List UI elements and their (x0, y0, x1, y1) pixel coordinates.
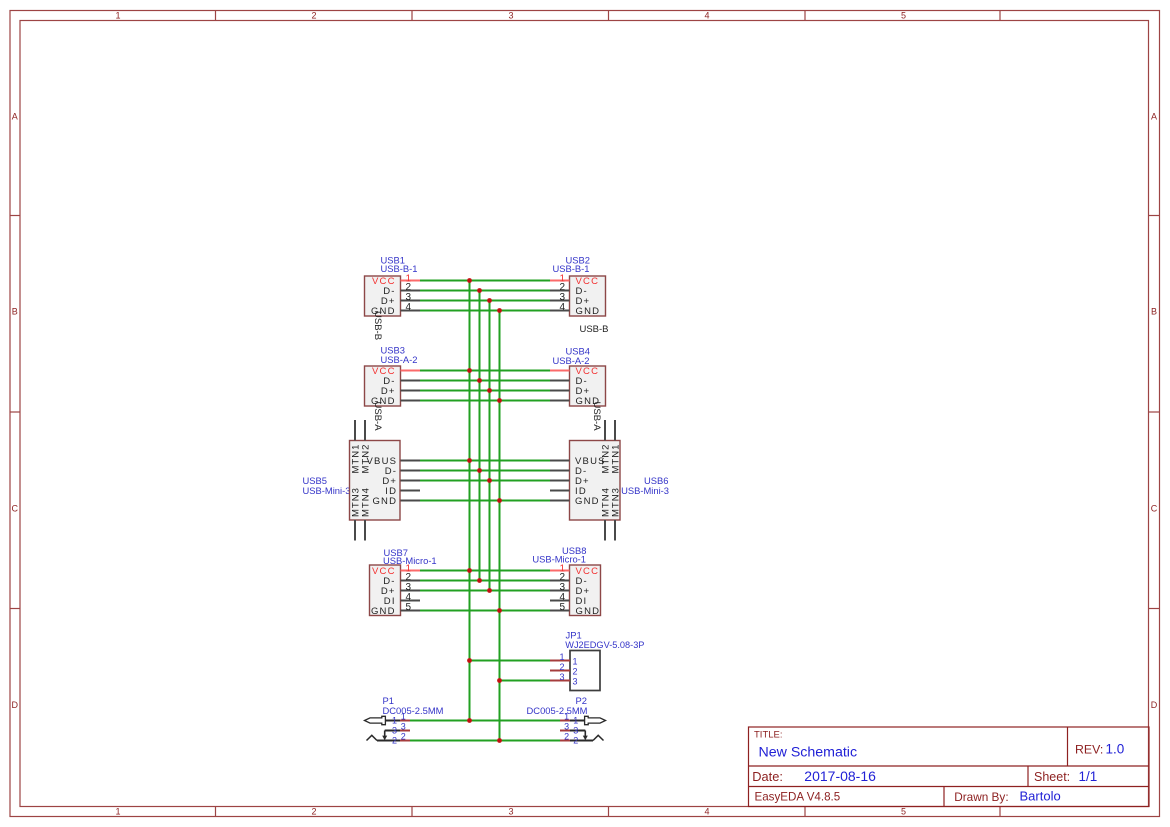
wire VCC USB5-USB6 (420, 460, 550, 462)
svg-text:1: 1 (392, 716, 397, 726)
svg-text:1: 1 (573, 716, 578, 726)
wire D- USB7-USB8 (420, 580, 550, 582)
svg-text:C: C (12, 503, 19, 513)
junction (469.5,370.5) (467, 368, 472, 373)
svg-text:MTN1: MTN1 (610, 444, 621, 474)
svg-text:WJ2EDGV-5.08-3P: WJ2EDGV-5.08-3P (565, 640, 644, 650)
junction (499.5,400.5) (497, 398, 502, 403)
svg-text:2: 2 (564, 732, 569, 742)
connector USB6 USB-Mini-3 (550, 420, 669, 541)
svg-text:GND: GND (576, 606, 601, 617)
wire GND USB5-USB6 (420, 500, 550, 502)
wire D- USB5-USB6 (420, 470, 550, 472)
junction (469.5,660.5) (467, 658, 472, 663)
wire vertical net D+ (489, 301, 491, 591)
svg-text:USB-A-2: USB-A-2 (381, 354, 418, 365)
svg-text:1: 1 (564, 712, 569, 722)
svg-text:USB-A: USB-A (372, 402, 383, 432)
svg-text:B: B (1151, 307, 1157, 317)
svg-text:2: 2 (573, 666, 578, 676)
wire GND USB3-USB4 (420, 400, 550, 402)
svg-text:GND: GND (576, 306, 601, 317)
wire D+ USB7-USB8 (420, 590, 550, 592)
connector P1 DC005-2.5MM (365, 695, 444, 745)
svg-text:3: 3 (508, 10, 513, 20)
svg-text:TITLE:: TITLE: (754, 730, 783, 741)
junction (499.5,500.5) (497, 498, 502, 503)
svg-text:USB-A: USB-A (591, 402, 602, 432)
junction (499.5,610.5) (497, 608, 502, 613)
svg-text:USB-B-1: USB-B-1 (553, 263, 590, 274)
wire GND P1-P2 pin 2 (410, 740, 560, 742)
svg-text:REV:: REV: (1075, 742, 1103, 756)
svg-text:1.0: 1.0 (1106, 741, 1125, 756)
svg-text:2: 2 (311, 807, 316, 817)
svg-text:USB-A-2: USB-A-2 (553, 355, 590, 366)
svg-text:DC005-2.5MM: DC005-2.5MM (527, 705, 588, 716)
connector USB5 USB-Mini-3 (303, 420, 421, 541)
svg-text:New Schematic: New Schematic (759, 745, 858, 761)
svg-text:Sheet:: Sheet: (1034, 770, 1070, 784)
svg-text:4: 4 (704, 807, 709, 817)
svg-text:5: 5 (406, 602, 412, 613)
svg-text:3: 3 (401, 722, 406, 732)
junction (469.5,460.5) (467, 458, 472, 463)
svg-text:MTN4: MTN4 (360, 487, 371, 517)
svg-text:USB-B: USB-B (372, 311, 383, 340)
wire vertical net GND (499, 311, 501, 741)
junction (479.5,470.5) (477, 468, 482, 473)
svg-text:MTN3: MTN3 (610, 487, 621, 517)
svg-text:5: 5 (559, 602, 565, 613)
wire D+ USB5-USB6 (420, 480, 550, 482)
svg-text:1: 1 (401, 712, 406, 722)
wire VCC USB1-USB2 (420, 280, 550, 282)
svg-text:D: D (1151, 700, 1158, 710)
svg-text:Date:: Date: (752, 769, 783, 784)
svg-text:EasyEDA V4.8.5: EasyEDA V4.8.5 (755, 791, 841, 804)
svg-text:1: 1 (559, 652, 564, 662)
junction (499.5,310.5) (497, 308, 502, 313)
junction (469.5,570.5) (467, 568, 472, 573)
svg-text:2: 2 (401, 732, 406, 742)
junction (489.5,300.5) (487, 298, 492, 303)
svg-text:3: 3 (573, 676, 578, 686)
wire VCC to JP1 pin 1 (470, 660, 551, 662)
connector USB1 USB-B-1 (365, 254, 421, 340)
connector USB7 USB-Micro-1 (370, 547, 437, 617)
svg-text:Bartolo: Bartolo (1020, 789, 1061, 804)
svg-text:3: 3 (573, 726, 578, 736)
svg-text:1: 1 (115, 807, 120, 817)
wire VCC USB3-USB4 (420, 370, 550, 372)
junction (469.5,280.5) (467, 278, 472, 283)
svg-text:DC005-2.5MM: DC005-2.5MM (383, 705, 444, 716)
svg-text:GND: GND (371, 606, 396, 617)
svg-text:2017-08-16: 2017-08-16 (804, 768, 876, 784)
connector USB8 USB-Micro-1 (532, 545, 600, 617)
svg-text:1: 1 (115, 10, 120, 20)
svg-text:C: C (1151, 503, 1158, 513)
wire GND USB1-USB2 (420, 310, 550, 312)
wire GND to JP1 pin 3 (500, 680, 551, 682)
svg-text:4: 4 (559, 302, 565, 313)
svg-text:2: 2 (392, 736, 397, 746)
wire vertical net D- (479, 291, 481, 581)
wire D+ USB3-USB4 (420, 390, 550, 392)
svg-text:B: B (12, 307, 18, 317)
svg-text:3: 3 (559, 672, 564, 682)
connector JP1 WJ2EDGV-5.08-3P (550, 630, 644, 691)
wire vertical net VCC (469, 281, 471, 721)
connector USB3 USB-A-2 (365, 345, 421, 432)
junction (479.5,380.5) (477, 378, 482, 383)
svg-text:USB-B-1: USB-B-1 (381, 263, 418, 274)
svg-text:USB-Mini-3: USB-Mini-3 (621, 485, 669, 496)
wire D- USB1-USB2 (420, 290, 550, 292)
svg-text:D: D (12, 700, 19, 710)
svg-text:3: 3 (564, 722, 569, 732)
svg-text:5: 5 (901, 10, 906, 20)
svg-text:A: A (1151, 111, 1157, 121)
svg-text:GND: GND (372, 496, 397, 507)
wire D+ USB1-USB2 (420, 300, 550, 302)
junction (499.5,680.5) (497, 678, 502, 683)
svg-text:5: 5 (901, 807, 906, 817)
junction (479.5,290.5) (477, 288, 482, 293)
wire D- USB3-USB4 (420, 380, 550, 382)
wire VCC USB7-USB8 (420, 570, 550, 572)
svg-text:GND: GND (575, 496, 600, 507)
wire GND USB7-USB8 (420, 610, 550, 612)
svg-text:A: A (12, 111, 18, 121)
junction (489.5,590.5) (487, 588, 492, 593)
svg-text:2: 2 (311, 10, 316, 20)
connector USB2 USB-B-1 (550, 254, 609, 335)
svg-text:3: 3 (392, 726, 397, 736)
svg-text:4: 4 (704, 10, 709, 20)
svg-text:USB-B: USB-B (579, 324, 608, 335)
svg-text:2: 2 (559, 662, 564, 672)
svg-text:MTN2: MTN2 (360, 444, 371, 474)
junction (469.5,720.5) (467, 718, 472, 723)
svg-text:1/1: 1/1 (1079, 769, 1098, 784)
junction (489.5,480.5) (487, 478, 492, 483)
svg-text:2: 2 (573, 736, 578, 746)
connector P2 DC005-2.5MM (527, 695, 606, 745)
svg-text:USB-Mini-3: USB-Mini-3 (303, 485, 351, 496)
title block (749, 727, 1150, 807)
svg-text:1: 1 (573, 656, 578, 666)
junction (489.5,390.5) (487, 388, 492, 393)
svg-text:Drawn By:: Drawn By: (954, 790, 1008, 804)
junction (479.5,580.5) (477, 578, 482, 583)
wire VCC P1-P2 pin 1 (410, 720, 560, 722)
connector USB4 USB-A-2 (550, 345, 606, 431)
svg-text:4: 4 (406, 302, 412, 313)
svg-text:3: 3 (508, 807, 513, 817)
junction (499.5,740.5) (497, 738, 502, 743)
